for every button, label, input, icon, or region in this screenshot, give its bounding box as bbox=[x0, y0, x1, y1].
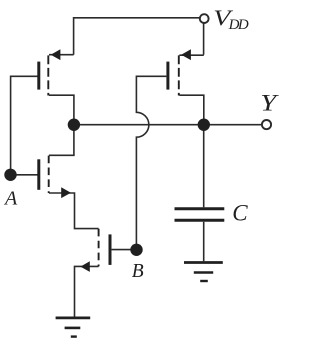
svg-text:DD: DD bbox=[228, 17, 249, 33]
svg-text:Y: Y bbox=[260, 90, 279, 116]
svg-text:A: A bbox=[3, 187, 18, 209]
svg-text:B: B bbox=[132, 261, 144, 282]
svg-text:C: C bbox=[232, 201, 248, 226]
